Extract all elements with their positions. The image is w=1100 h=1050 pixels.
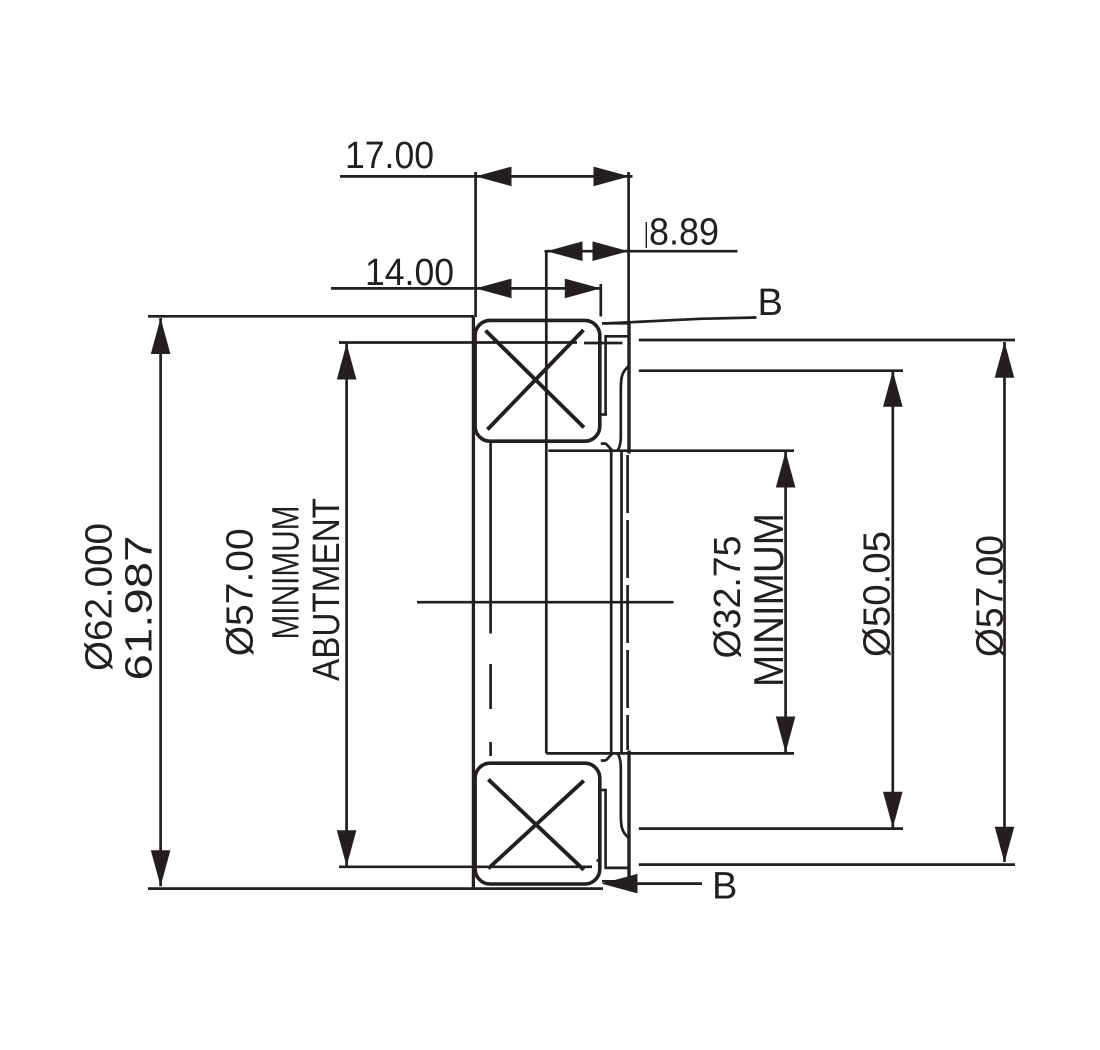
svg-text:B: B [758, 282, 783, 324]
dim line [345, 344, 348, 867]
rib right face top [627, 323, 630, 454]
top X diagonal 2 [488, 330, 584, 430]
svg-text:8.89: 8.89 [649, 212, 719, 254]
arrow 17.00 left [476, 167, 512, 187]
bottom X diagonal 1 [488, 779, 584, 869]
roller-cage square top [475, 320, 600, 441]
rib bottom face [602, 880, 630, 883]
svg-text:MINIMUM: MINIMUM [266, 506, 308, 640]
svg-text:MINIMUM: MINIMUM [745, 513, 792, 687]
arrow 8.89 right [593, 241, 629, 261]
rib right face bottom [627, 751, 630, 882]
arrow 17.00 right [594, 167, 630, 187]
svg-text:Ø32.75: Ø32.75 [707, 536, 749, 659]
leader line B top [604, 318, 757, 324]
arrow bottom [776, 717, 796, 753]
svg-text:Ø50.05: Ø50.05 [857, 531, 899, 657]
inner ring bottom face + O32.75 bottom extension [546, 752, 794, 755]
svg-text:Ø57.00: Ø57.00 [220, 528, 262, 656]
rib chamfer top [606, 444, 613, 451]
arrow bottom [151, 850, 171, 886]
dim line 17.00 [340, 175, 633, 178]
extension line bottom [639, 827, 903, 830]
leader arrow B bottom [602, 874, 638, 894]
arrow top [995, 342, 1015, 378]
inner ring bore line right [620, 451, 623, 754]
rib step line B bottom [604, 867, 630, 870]
rib corner ledge top [601, 442, 606, 445]
arrow top [337, 344, 357, 380]
arrow bottom [883, 792, 903, 828]
rib inner bar bottom cap [601, 413, 608, 416]
roller-cage square bottom [475, 763, 600, 884]
rib corner ledge bottom [601, 759, 606, 762]
svg-text:Ø62.000: Ø62.000 [79, 523, 121, 671]
svg-text:17.00: 17.00 [345, 135, 434, 177]
extension line bottom [639, 863, 1015, 866]
dim line [891, 371, 894, 828]
top X diagonal 1 [486, 331, 585, 428]
arrow 8.89 left [547, 241, 583, 261]
inner ring hidden line (dashed) [626, 455, 629, 750]
arrow bottom [995, 827, 1015, 863]
svg-text:Ø57.00: Ø57.00 [970, 535, 1012, 657]
inner ring bore line left [610, 451, 613, 754]
dim line 14.00 [331, 287, 602, 290]
extension line right (x=628.6 upper) [627, 172, 630, 322]
rib step line B [604, 335, 630, 338]
extension line top [148, 315, 474, 318]
svg-text:61.987: 61.987 [119, 536, 161, 681]
outer ring left face [472, 317, 475, 888]
rib inner bar top cap [601, 789, 608, 792]
rib top face [602, 322, 630, 325]
inner ring top face + O32.75 top extension [548, 449, 794, 452]
arrow bottom [337, 830, 357, 866]
extension line right of 14.00 (x=600.8) [599, 284, 602, 317]
rib relief curve top [617, 366, 629, 451]
rib shoulder line C [584, 342, 623, 345]
cup inner wall line (solid part) [489, 443, 492, 634]
arrow top [776, 452, 796, 488]
centerline [417, 601, 674, 604]
stray tick left of text [645, 222, 647, 248]
extension line top [639, 369, 903, 372]
arrow top [883, 371, 903, 407]
rib inner bar bottom [604, 790, 607, 868]
bottom X diagonal 2 [488, 781, 584, 869]
dim line [1003, 342, 1006, 862]
inner ring left face [545, 251, 548, 753]
cup inner wall line (dashed part) [489, 664, 492, 756]
rib relief curve bottom [617, 753, 629, 838]
leader line B bottom [637, 882, 702, 885]
extension/abutment line top [339, 341, 577, 344]
arrow 14.00 left [476, 279, 512, 299]
dim line [784, 452, 787, 752]
rib shoulder stub bottom [597, 859, 602, 862]
svg-text:ABUTMENT: ABUTMENT [306, 498, 348, 681]
rib chamfer bottom [606, 753, 613, 760]
extension line left (x=475.5) [474, 172, 477, 317]
dim line 8.89 [545, 250, 738, 253]
dim line [159, 318, 162, 886]
rib inner bar [604, 336, 607, 414]
extension line top [639, 339, 1015, 342]
svg-text:B: B [712, 866, 737, 908]
extension/abutment line bottom [339, 865, 592, 868]
extension line bottom [148, 887, 603, 890]
arrow 14.00 right [565, 279, 601, 299]
arrow top [151, 318, 171, 354]
